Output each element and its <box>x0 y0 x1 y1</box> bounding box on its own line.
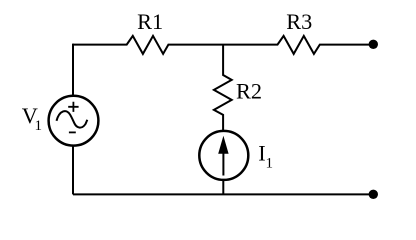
svg-text:R1: R1 <box>137 9 163 34</box>
svg-text:1: 1 <box>35 118 43 134</box>
svg-text:1: 1 <box>266 156 274 172</box>
svg-text:R3: R3 <box>286 9 312 34</box>
svg-text:R2: R2 <box>236 78 262 103</box>
